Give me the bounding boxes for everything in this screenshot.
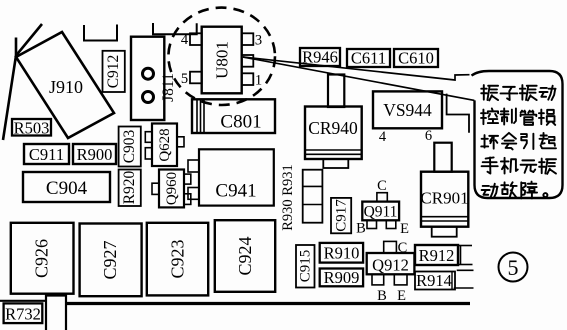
capacitor C801 — [192, 99, 275, 133]
board edge bottom main segment — [66, 302, 470, 305]
svg-text:U801: U801 — [213, 41, 232, 79]
U801 pin 3 — [242, 33, 254, 45]
svg-text:4: 4 — [181, 32, 189, 48]
svg-text:C915: C915 — [298, 250, 314, 283]
svg-text:E: E — [397, 288, 406, 304]
svg-text:J910: J910 — [49, 77, 83, 97]
diode CR901 body — [421, 172, 468, 227]
capacitor C926 — [11, 223, 74, 294]
capacitor C904 — [23, 172, 110, 202]
C801 stripe 2 — [200, 99, 202, 133]
svg-text:J811: J811 — [160, 73, 177, 102]
resistor R946 — [300, 48, 340, 66]
diode CR901 top tab — [434, 143, 451, 172]
svg-text:C927: C927 — [100, 240, 120, 279]
svg-text:Q960: Q960 — [164, 172, 180, 205]
J811 hole 1 — [143, 68, 154, 79]
svg-text:1: 1 — [255, 73, 262, 89]
Q960 right pin a — [184, 174, 191, 184]
CR901 stripe 2 — [421, 220, 468, 222]
resistor pads strip — [303, 170, 323, 223]
Q912 top pin — [384, 241, 397, 253]
Q628 right pin — [177, 137, 184, 147]
board edge stub — [15, 38, 18, 56]
circled number 5 — [499, 253, 528, 282]
svg-text:4: 4 — [379, 129, 387, 145]
transistor Q911 body — [362, 202, 399, 221]
svg-text:R900: R900 — [77, 145, 113, 164]
capacitor C911 — [24, 144, 69, 164]
svg-text:CR901: CR901 — [420, 189, 468, 208]
Q912 bottom pin B — [372, 274, 384, 285]
pad line right of R912 bottom — [459, 264, 473, 266]
board edge top-left — [3, 24, 42, 140]
pad line right of R912 top — [458, 245, 472, 247]
svg-text:C912: C912 — [105, 55, 122, 89]
board edge tab — [46, 296, 66, 330]
R912 right double edge — [460, 245, 462, 265]
connector J910 — [16, 32, 114, 138]
svg-text:C610: C610 — [398, 49, 434, 68]
svg-text:C941: C941 — [215, 181, 256, 202]
capacitor C927 — [80, 224, 142, 297]
C801 stripe 3 — [203, 99, 205, 133]
svg-text:C923: C923 — [168, 239, 188, 278]
Q911 bottom pin B — [367, 220, 377, 228]
text line4 shou ji wu zhen — [482, 157, 498, 173]
svg-text:VS944: VS944 — [383, 100, 432, 120]
resistor R503 — [12, 119, 51, 136]
CR940 bottom tab — [323, 159, 348, 168]
pad outline near VS944 — [447, 94, 469, 133]
svg-text:R920: R920 — [121, 170, 138, 204]
capacitor C924 — [215, 220, 275, 292]
pad line right of R914 top — [457, 269, 474, 271]
Q960 left pin — [152, 183, 159, 194]
resistor R732 — [4, 303, 43, 323]
svg-text:CR940: CR940 — [308, 118, 358, 138]
callout pointer lower line — [243, 57, 475, 100]
U801 middle right pin — [242, 55, 254, 67]
Q960 right pin b — [184, 194, 191, 205]
Q911 bottom pin E — [386, 220, 396, 228]
Q911 top pin — [377, 193, 387, 202]
connector J811 — [131, 37, 164, 120]
svg-text:E: E — [400, 221, 409, 237]
capacitor C611 — [347, 49, 390, 67]
bracket pad (near U801) — [153, 23, 197, 34]
dashed highlight ellipse around U801 — [168, 8, 275, 105]
R914 inner tick — [451, 272, 453, 290]
CR901 stripe 1 — [421, 216, 468, 218]
svg-text:R732: R732 — [5, 305, 41, 324]
resistor R912 — [415, 245, 458, 265]
svg-text:R930 R931: R930 R931 — [280, 164, 296, 230]
U801 pin 1 — [242, 73, 254, 85]
pad line right of R914 bottom — [454, 287, 474, 289]
capacitor C903 — [119, 127, 141, 167]
U801 pin 5 — [190, 72, 202, 84]
svg-text:C904: C904 — [46, 178, 88, 199]
svg-text:C917: C917 — [334, 199, 350, 232]
capacitor C923 — [147, 223, 208, 296]
svg-text:R910: R910 — [324, 244, 360, 263]
bracket pad (top) — [84, 25, 117, 41]
callout bubble — [472, 71, 563, 198]
J811 hole 2 — [143, 92, 154, 103]
svg-text:C911: C911 — [29, 145, 64, 164]
svg-text:5: 5 — [181, 71, 188, 87]
capacitor C610 — [394, 49, 438, 67]
diode CR940 body — [305, 107, 362, 160]
text line1 zhen zi zhen dong — [481, 85, 498, 100]
U801 pin 4 — [190, 33, 202, 45]
resistor R910 — [320, 243, 363, 263]
svg-text:C903: C903 — [121, 129, 138, 163]
board edge bottom-left segment — [0, 300, 46, 302]
svg-text:R909: R909 — [324, 268, 360, 287]
resistor R914 — [415, 272, 455, 290]
svg-text:C926: C926 — [32, 239, 52, 278]
text line5 dong gu zhang stop — [482, 184, 498, 198]
svg-text:C: C — [398, 240, 408, 256]
transistor Q960 body — [159, 170, 184, 208]
IC U801 body — [202, 27, 242, 94]
transistor Q628 body — [152, 124, 177, 167]
Q628 left pin a — [145, 132, 152, 143]
capacitor C912 — [103, 51, 125, 92]
capacitor C915 — [296, 245, 315, 288]
svg-text:Q912: Q912 — [372, 256, 409, 275]
svg-text:C801: C801 — [220, 112, 261, 133]
varistor VS944 — [373, 91, 442, 128]
svg-text:6: 6 — [425, 128, 432, 144]
svg-text:3: 3 — [255, 33, 262, 49]
diode CR940 top tab — [328, 75, 344, 108]
svg-text:B: B — [356, 221, 366, 237]
resistor R900 — [73, 144, 116, 164]
CR901 bottom tab — [432, 227, 457, 237]
CR940 stripe 2 — [305, 153, 362, 155]
resistor R909 — [320, 269, 363, 287]
callout chinese text — [481, 85, 556, 198]
C801 stripe 1 — [196, 99, 198, 133]
capacitor C917 — [331, 198, 351, 233]
CR940 stripe 1 — [305, 149, 362, 151]
svg-text:C924: C924 — [235, 236, 255, 275]
C941 left pin b — [188, 188, 199, 200]
C941 left pin a — [188, 160, 199, 172]
Q628 left pin b — [145, 148, 152, 159]
resistor R920 — [119, 170, 141, 207]
svg-text:R503: R503 — [14, 119, 50, 138]
svg-text:Q911: Q911 — [364, 204, 398, 221]
transistor Q912 body — [367, 253, 415, 274]
svg-text:C: C — [377, 178, 387, 194]
text line3 huai hui yin qi — [481, 135, 498, 149]
svg-text:R914: R914 — [416, 271, 452, 290]
capacitor C941 — [199, 149, 274, 205]
svg-text:B: B — [377, 288, 387, 304]
callout pointer upper line — [243, 57, 470, 80]
Q912 bottom pin E — [394, 274, 407, 285]
svg-text:5: 5 — [508, 255, 519, 280]
text line2 kong zhi guan sun — [481, 108, 498, 124]
svg-text:R912: R912 — [419, 246, 455, 265]
svg-text:Q628: Q628 — [157, 128, 173, 161]
svg-text:C611: C611 — [351, 49, 386, 68]
